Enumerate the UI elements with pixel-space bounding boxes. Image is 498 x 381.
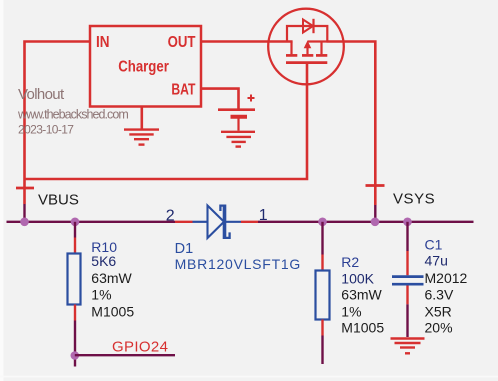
svg-text:BAT: BAT	[171, 82, 196, 99]
wire VBUS net: charger IN pin to left corner, down to VBUS flag	[25, 42, 91, 205]
svg-text:C1: C1	[425, 237, 443, 253]
svg-text:2023-10-17: 2023-10-17	[18, 123, 74, 137]
svg-text:Volhout: Volhout	[18, 86, 65, 103]
wire charger BAT pin to battery	[201, 89, 239, 109]
junction VBUS riser on bus	[20, 218, 29, 227]
junction R2 on bus	[318, 218, 327, 227]
svg-text:D1: D1	[175, 241, 194, 257]
wire transistor drain right and down to VSYS flag	[327, 42, 376, 206]
svg-text:Charger: Charger	[118, 58, 169, 75]
wire VBUS flag to bus	[23, 204, 25, 222]
capacitor C1 47u	[392, 222, 468, 337]
resistor R2 100K	[316, 222, 385, 364]
resistor R10 5K6	[68, 222, 135, 367]
junction GPIO24 node	[71, 351, 80, 360]
svg-text:www.thebackshed.com: www.thebackshed.com	[17, 108, 128, 122]
svg-text:100K: 100K	[341, 271, 374, 287]
junction R10 on bus	[71, 218, 80, 227]
svg-text:63mW: 63mW	[91, 270, 132, 286]
svg-text:OUT: OUT	[168, 34, 196, 51]
ground below charger	[124, 130, 159, 145]
wire VSYS flag to bus	[374, 205, 376, 222]
power flag VBUS	[16, 187, 34, 190]
transistor Q1 P-MOSFET with body diode	[268, 9, 344, 85]
svg-text:47u: 47u	[425, 253, 448, 269]
svg-text:1%: 1%	[91, 287, 111, 303]
ground below C1	[391, 339, 425, 354]
wire transistor gate down and left to VBUS riser	[25, 64, 308, 180]
bus wire VBUS segment	[7, 221, 176, 223]
diode D1 MBR120VLSFT1G (schottky)	[166, 205, 301, 273]
svg-text:VSYS: VSYS	[393, 191, 435, 208]
svg-text:6.3V: 6.3V	[425, 287, 454, 303]
ground below battery	[221, 132, 255, 147]
svg-text:1%: 1%	[341, 304, 361, 320]
wire GPIO24 stub	[75, 354, 175, 356]
svg-text:M1005: M1005	[341, 320, 384, 336]
svg-text:1: 1	[259, 207, 268, 224]
svg-text:MBR120VLSFT1G: MBR120VLSFT1G	[175, 256, 301, 272]
junction VSYS riser on bus	[371, 218, 380, 227]
svg-text:M1005: M1005	[91, 304, 134, 320]
svg-text:GPIO24: GPIO24	[112, 338, 168, 355]
wire charger OUT pin to transistor source	[201, 40, 293, 43]
junction C1 on bus	[403, 218, 412, 227]
battery cell BT1 with plus mark	[218, 95, 255, 131]
svg-text:63mW: 63mW	[341, 287, 382, 303]
svg-text:IN: IN	[96, 34, 110, 51]
svg-text:R2: R2	[341, 254, 359, 270]
svg-text:X5R: X5R	[425, 304, 452, 320]
svg-text:20%: 20%	[425, 320, 453, 336]
svg-text:M2012: M2012	[425, 270, 468, 286]
svg-text:VBUS: VBUS	[38, 192, 79, 209]
svg-text:2: 2	[166, 208, 175, 225]
charger block U1 (pins IN, OUT, BAT)	[90, 26, 201, 107]
svg-text:5K6: 5K6	[91, 253, 116, 269]
wire charger GND stub	[141, 107, 144, 130]
power flag VSYS	[366, 184, 385, 187]
bus wire VSYS segment	[258, 221, 474, 223]
